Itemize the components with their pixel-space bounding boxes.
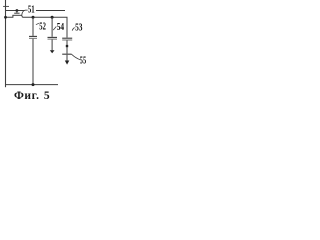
capacitor C53 top plate (62, 37, 72, 39)
wire: cap54 top stem (51, 17, 53, 37)
label 54 leader (53, 27, 56, 31)
wire: branch53 vertical stem (66, 17, 68, 37)
svg-text:51: 51 (28, 5, 35, 16)
capacitor C52 bottom plate (29, 37, 37, 39)
arrow 55 head (65, 61, 70, 65)
wire: small tick on bus (3, 5, 9, 7)
label 52 leader (36, 23, 39, 25)
wire: drain rail to the right, corner down at x=66.4 (22, 16, 67, 19)
node: junction dot cap54 (51, 16, 54, 19)
wire: cap54 bottom stem (51, 40, 53, 51)
svg-text:52: 52 (39, 21, 46, 32)
svg-text:53: 53 (75, 23, 82, 34)
capacitor C52 top plate (29, 35, 37, 37)
svg-text:55: 55 (80, 55, 86, 66)
node: source-bus junction dot (4, 16, 7, 19)
svg-text:54: 54 (57, 22, 64, 33)
capacitor C53 bottom plate (62, 39, 72, 41)
wire: bottom rail (6, 84, 59, 86)
node: junction dot cap52 (32, 16, 35, 19)
wire: stem below bar (66, 55, 68, 61)
wire: left vertical bus (5, 0, 7, 87)
capacitor C54 bottom plate (48, 38, 58, 40)
transistor Q51 drain lead (21, 15, 22, 17)
wire: stem below C53 (66, 40, 68, 54)
arrow under C54 (50, 50, 55, 53)
svg-text:Фиг. 5: Фиг. 5 (14, 90, 50, 100)
transistor Q51 source lead (6, 15, 13, 17)
node: gate stub junction dot (16, 9, 19, 12)
transistor Q51 channel bar (12, 14, 21, 16)
node: dot on branch53 stem (66, 45, 68, 47)
label 53 leader (72, 28, 74, 31)
wire: cap52 top stem (32, 17, 34, 36)
label 51 leader arc (22, 10, 28, 15)
node: junction dot bottom (32, 83, 35, 86)
background (0, 0, 88, 100)
transistor Q51 gate bar (14, 12, 19, 14)
wire: top horizontal rail (left part) (6, 10, 25, 12)
wire: gate stub (16, 11, 18, 13)
capacitor C54 top plate (48, 36, 58, 38)
wire: top horizontal rail (right part) (36, 10, 65, 12)
bar electrode on branch53 (62, 53, 71, 55)
label 55 leader arc (72, 54, 81, 59)
wire: cap52 bottom stem (32, 39, 34, 85)
